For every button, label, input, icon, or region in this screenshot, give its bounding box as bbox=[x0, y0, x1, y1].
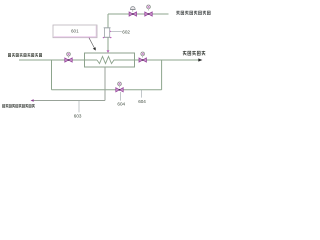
label leader 602 bbox=[111, 31, 122, 33]
label leader 603 bbox=[78, 101, 80, 113]
valve V2 (motor valve) bbox=[145, 5, 152, 16]
heating coil zigzag bbox=[97, 56, 116, 63]
label: 引自给水母管出口 (top right) bbox=[176, 11, 210, 15]
label: 疏水至暖风器疏水母管 (bottom left) bbox=[2, 104, 34, 107]
wire: left bypass riser bbox=[51, 60, 53, 90]
svg-text:604: 604 bbox=[117, 102, 125, 107]
arrowhead to economizer (right) bbox=[198, 58, 202, 61]
wire: top feed line bbox=[108, 13, 169, 15]
valve V5 (bypass) bbox=[116, 82, 123, 92]
label leader 604 bbox=[120, 92, 122, 101]
valve V1 (control valve with diaphragm actuator) bbox=[129, 6, 136, 16]
wire: 602 outlet with arrow into heater bbox=[107, 37, 109, 50]
arrowhead drain (magenta, left) bbox=[31, 99, 34, 101]
wire: right bypass riser bbox=[161, 60, 163, 90]
heater (heat exchanger) box bbox=[85, 53, 135, 67]
box 601 bbox=[53, 25, 97, 38]
svg-text:604: 604 bbox=[138, 99, 146, 104]
leader arrow from 601 to heater bbox=[89, 38, 94, 48]
arrowhead (magenta) bbox=[107, 50, 110, 53]
label: 到暖风区换热器给水 (left) bbox=[8, 53, 42, 57]
wire: drop from top line to item 602 bbox=[107, 14, 109, 28]
label: 至省煤器 (right) bbox=[183, 51, 205, 55]
wire: heater drain bbox=[104, 67, 106, 101]
wire: bypass line bbox=[52, 89, 162, 91]
valve V4 (main line right) bbox=[139, 52, 146, 62]
valve V3 (main line left) bbox=[65, 52, 72, 62]
label leader 604b bbox=[141, 90, 143, 98]
svg-text:601: 601 bbox=[71, 29, 79, 34]
svg-text:602: 602 bbox=[122, 30, 130, 35]
item 602 (inline device) bbox=[103, 28, 112, 39]
wire: main feedwater line bbox=[19, 59, 97, 61]
svg-text:603: 603 bbox=[74, 113, 82, 118]
